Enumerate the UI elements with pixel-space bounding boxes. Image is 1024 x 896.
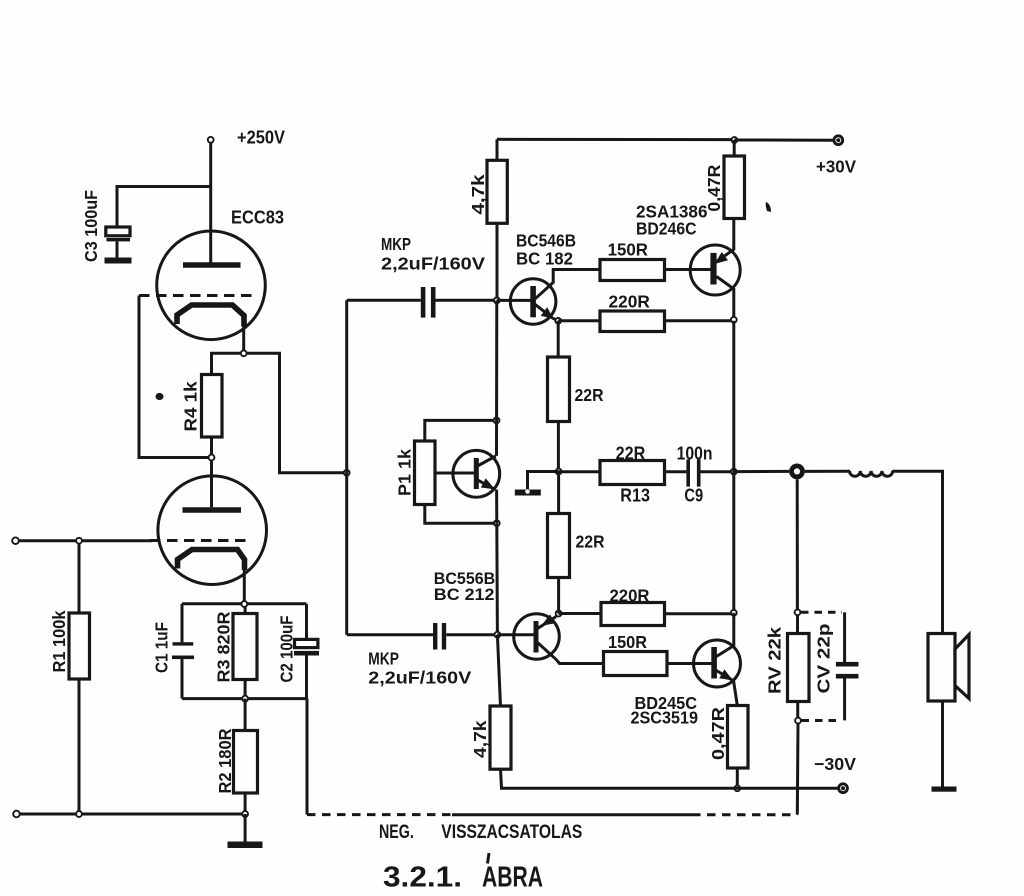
wire Q1 collector to 150R [553, 270, 600, 284]
svg-text:220R: 220R [610, 586, 650, 606]
node R1 bottom [76, 811, 82, 817]
wire column to 4,7k lower [497, 635, 500, 706]
wire coupling column [345, 300, 348, 634]
svg-text:BD246C: BD246C [636, 219, 697, 239]
node BC556B base [495, 632, 501, 638]
wire 0,47R top stub [733, 140, 736, 156]
resistor 220R (upper) [600, 311, 665, 332]
wire Q5 collector to rail node [732, 613, 735, 647]
wire P1 wiper to Q3 base [435, 472, 474, 475]
svg-text:C3 100uF: C3 100uF [81, 190, 101, 262]
wire 22R bottom to mid node [557, 422, 560, 472]
speaker LS [928, 634, 969, 702]
transistor Q3 bias servo [453, 450, 500, 497]
wire output node down to RV [796, 479, 799, 612]
resistor R3 820R [233, 614, 257, 680]
capacitor C1 1uF [172, 642, 194, 659]
transistor Q5 BD245C / 2SC3519 (NPN power) [694, 640, 741, 687]
wire 220R lower right to rail [665, 612, 734, 615]
node servo collector / P1 top [494, 418, 500, 424]
node coupling column / tube output [344, 470, 350, 476]
svg-text:100n: 100n [677, 444, 713, 464]
node Q1 emitter [555, 318, 561, 324]
wire 4,7k upper bottom to base node [496, 223, 499, 300]
wire speaker to ground [941, 701, 944, 787]
dashed link CV to RV bottom [802, 719, 843, 722]
resistor 22R (upper) [548, 357, 570, 422]
wire inductor to speaker [892, 471, 942, 633]
capacitor MKP 2,2uF/160V (lower) [433, 623, 446, 650]
wire mid node to 22R lower [557, 472, 560, 514]
wire RV top stub [796, 615, 799, 634]
wire rail node to output dot [734, 470, 789, 473]
capacitor C2 100uF [294, 639, 319, 655]
resistor 4,7k (lower) [490, 706, 511, 769]
resistor R1 100k [69, 613, 90, 679]
wire cathode V1 to coupling column [244, 353, 347, 473]
svg-text:2,2uF/160V: 2,2uF/160V [368, 668, 471, 688]
svg-text:R3 820R: R3 820R [214, 611, 234, 682]
wire 150R lower to Q5 base [667, 662, 712, 665]
cathode V1 [177, 305, 244, 327]
resistor 150R (upper) [600, 260, 665, 281]
wire R1 top [78, 543, 81, 613]
svg-text:BC 212: BC 212 [434, 586, 495, 604]
wire grid V1 feedback to R4 bottom [139, 296, 212, 458]
scan speck near 2SA1386 [766, 202, 771, 212]
wire mid node to ground [528, 472, 559, 490]
scan speck near R4 [156, 393, 164, 400]
capacitor C3 100uF [106, 227, 130, 258]
wire node to anode V2 [210, 458, 213, 508]
wire C2 top leg [305, 604, 308, 640]
wire column to BC556B base node [495, 523, 499, 635]
svg-text:3.2.1.: 3.2.1. [383, 861, 462, 893]
wire bias chain column [495, 300, 498, 456]
node R3 bottom [242, 696, 248, 702]
svg-text:MKP: MKP [381, 234, 411, 254]
wire R3 top stub [244, 607, 247, 614]
wire Q5 emitter to 0,47R lower [734, 681, 738, 706]
wire cathode V2 down [243, 570, 246, 604]
tube V1 ECC83 (upper triode) [139, 231, 265, 340]
wire cathode node row [182, 602, 307, 605]
resistor 220R (lower) [601, 603, 665, 626]
wire 150R to Q4 base [665, 268, 712, 271]
transistor Q1 BC546B / BC 182 [510, 279, 556, 325]
node R2 bottom [242, 811, 248, 817]
wire R4 bottom to node [210, 437, 213, 458]
wire base lead BC546B [497, 299, 531, 302]
wire 0,47R lower bottom stub [736, 768, 739, 788]
wire MKP2 left lead [347, 633, 433, 636]
node RV top [795, 609, 801, 615]
terminal +250V [208, 137, 214, 143]
svg-text:−30V: −30V [814, 754, 856, 774]
node output rail / C9 [731, 469, 737, 475]
wire CV bottom leg [843, 679, 846, 721]
resistor R4 1k [202, 375, 223, 438]
node BC546B base [494, 298, 500, 304]
node +30V rail / 0,47R top [732, 137, 738, 143]
wire MKP1 left lead [347, 299, 421, 302]
wire R2 bottom stub [244, 793, 247, 814]
resistor 0,47R (upper) [724, 156, 745, 219]
resistor R13 22R [600, 461, 665, 485]
wire cathode V1 down [242, 327, 245, 354]
resistor 0,47R (lower) [728, 706, 749, 769]
svg-text:C9: C9 [684, 486, 703, 506]
svg-text:0,47R: 0,47R [708, 707, 728, 760]
wire servo emitter column [495, 490, 498, 524]
svg-text:CV 22p: CV 22p [814, 624, 834, 694]
wire P1 bottom branch [425, 505, 497, 524]
node -30V rail / 0,47R [734, 785, 740, 791]
anode V1 [183, 262, 241, 268]
svg-text:22R: 22R [616, 444, 646, 464]
input terminal upper [12, 537, 19, 544]
svg-text:MKP: MKP [368, 649, 399, 669]
svg-text:4,7k: 4,7k [470, 720, 490, 758]
wire output to inductor [805, 470, 850, 473]
svg-text:R2 180R: R2 180R [215, 728, 235, 793]
wire Q2 emitter node to 220R lower [559, 612, 601, 615]
wire R3 bottom stub [244, 680, 247, 699]
wire 0,47R bottom to Q4 emitter [732, 219, 735, 250]
svg-text:R1 100k: R1 100k [49, 610, 69, 672]
svg-text:220R: 220R [609, 291, 651, 311]
wire branch to C3 [117, 187, 211, 228]
ground below speaker [932, 787, 957, 792]
resistor 4,7k (upper) [487, 160, 507, 223]
wire mid node to R13 [559, 470, 600, 473]
node output (filled) [789, 464, 805, 480]
node cathode V2 [241, 601, 247, 607]
cathode V2 [178, 550, 245, 571]
svg-text:150R: 150R [608, 632, 647, 652]
svg-text:RV 22k: RV 22k [765, 627, 785, 694]
input terminal lower [13, 811, 20, 818]
wire +30V rail [497, 138, 734, 141]
wire cathode bypass bottom row [182, 697, 307, 700]
ground at emitter midpoint [515, 490, 541, 496]
resistor 150R (lower) [604, 652, 668, 676]
dashed link RV top to CV [801, 611, 842, 614]
anode V2 [183, 507, 242, 513]
ground below R2 [228, 842, 263, 849]
wire MKP2 right lead [446, 633, 497, 636]
node R4 bottom [209, 455, 215, 461]
wire input to grid V2 [19, 539, 152, 542]
wire base lead BC556B [497, 633, 534, 636]
svg-text:ABRA: ABRA [482, 861, 543, 893]
svg-text:4,7k: 4,7k [468, 174, 488, 214]
resistor R2 180R [234, 731, 258, 794]
svg-text:22R: 22R [576, 532, 605, 552]
grid V2 (dashed) [150, 539, 251, 542]
grid V1 (dashed) [139, 294, 253, 297]
wire RV bottom stub [796, 702, 799, 721]
wire R2 top stub [244, 699, 247, 731]
svg-text:R4 1k: R4 1k [181, 381, 201, 431]
wire CV top leg [843, 612, 846, 662]
svg-text:VISSZACSATOLAS: VISSZACSATOLAS [441, 822, 582, 843]
svg-text:C2 100uF: C2 100uF [277, 615, 297, 682]
svg-text:R13: R13 [620, 486, 650, 506]
wire node to 220R left [558, 319, 600, 322]
wire +30V terminal lead [734, 139, 833, 142]
svg-text:BC546B: BC546B [516, 231, 576, 251]
svg-text:22R: 22R [575, 385, 604, 405]
wire Q1 emitter to node [552, 318, 558, 321]
tube V2 ECC83 (lower triode) [150, 476, 267, 585]
wire lower input rail [20, 813, 245, 816]
ground below C3 [105, 258, 132, 264]
svg-text:+250V: +250V [237, 128, 285, 148]
wire C9 to output rail [701, 470, 734, 473]
wire RV bottom to feedback line [796, 724, 800, 815]
wire +250V terminal to anode of V1 [209, 143, 212, 263]
wire Q2 collector to 150R lower [557, 660, 604, 664]
node input / R1 top [76, 538, 82, 544]
transistor Q4 2SA1386 / BD246C (PNP power) [690, 245, 740, 295]
node 220R / collector rail [731, 317, 737, 323]
wire C2 bottom leg [305, 656, 308, 699]
wire Q4 collector to output rail node [732, 288, 735, 321]
node RV bottom [795, 718, 801, 724]
terminal +30V [834, 136, 843, 145]
wire C1 bottom leg [181, 659, 184, 699]
svg-text:+30V: +30V [816, 157, 856, 177]
resistor RV 22k [788, 634, 810, 702]
terminal -30V [839, 784, 848, 793]
wire node K1 to R4 top [212, 353, 244, 374]
wire C2/R3 node down to feedback line [306, 699, 309, 815]
wire MKP1 right lead [436, 299, 497, 302]
accent of A in ABRA [488, 853, 490, 864]
wire output rail vertical upper-lower [732, 321, 735, 613]
inductor L1 [850, 471, 893, 476]
wire C1 top leg [181, 604, 184, 643]
node servo emitter / P1 bottom [494, 520, 500, 526]
wire 4,7k upper top stub [496, 139, 499, 160]
wire R1 bottom [78, 679, 81, 814]
capacitor C9 100n [686, 459, 700, 486]
dashed feedback line NEG. VISSZACSATOLAS [307, 813, 797, 816]
svg-text:150R: 150R [608, 240, 649, 260]
svg-text:2,2uF/160V: 2,2uF/160V [381, 254, 485, 274]
capacitor MKP 2,2uF/160V (upper) [421, 287, 436, 318]
transistor Q2 BC556B / BC 212 [514, 614, 560, 660]
svg-text:P1 1k: P1 1k [395, 449, 415, 496]
svg-text:BC 182: BC 182 [516, 249, 573, 269]
node Q2 emitter [556, 611, 562, 617]
svg-text:C1 1uF: C1 1uF [152, 622, 172, 673]
node emitter resistor midpoint [556, 469, 562, 475]
svg-text:2SC3519: 2SC3519 [631, 708, 699, 728]
potentiometer P1 1k [415, 441, 436, 505]
node K1 (cathode V1) [241, 350, 247, 356]
capacitor CV 22p [836, 662, 859, 679]
svg-text:NEG.: NEG. [379, 822, 414, 843]
wire R13 to C9 [665, 470, 687, 473]
wire 220R right to output rail [665, 319, 734, 322]
wire 4,7k lower bottom stub [501, 769, 839, 788]
wire Q2 emitter to node [556, 614, 559, 617]
node rail / 220R lower [731, 610, 737, 616]
wire 22R lower to Q2 emitter node [557, 578, 560, 614]
wire P1 top branch [425, 420, 497, 441]
svg-text:ECC83: ECC83 [231, 207, 284, 228]
resistor 22R (lower) [548, 514, 570, 578]
wire ground stub below R2 [244, 814, 247, 842]
wire Q1 emitter node to 22R top [557, 321, 560, 357]
svg-text:0,47R: 0,47R [704, 164, 724, 211]
